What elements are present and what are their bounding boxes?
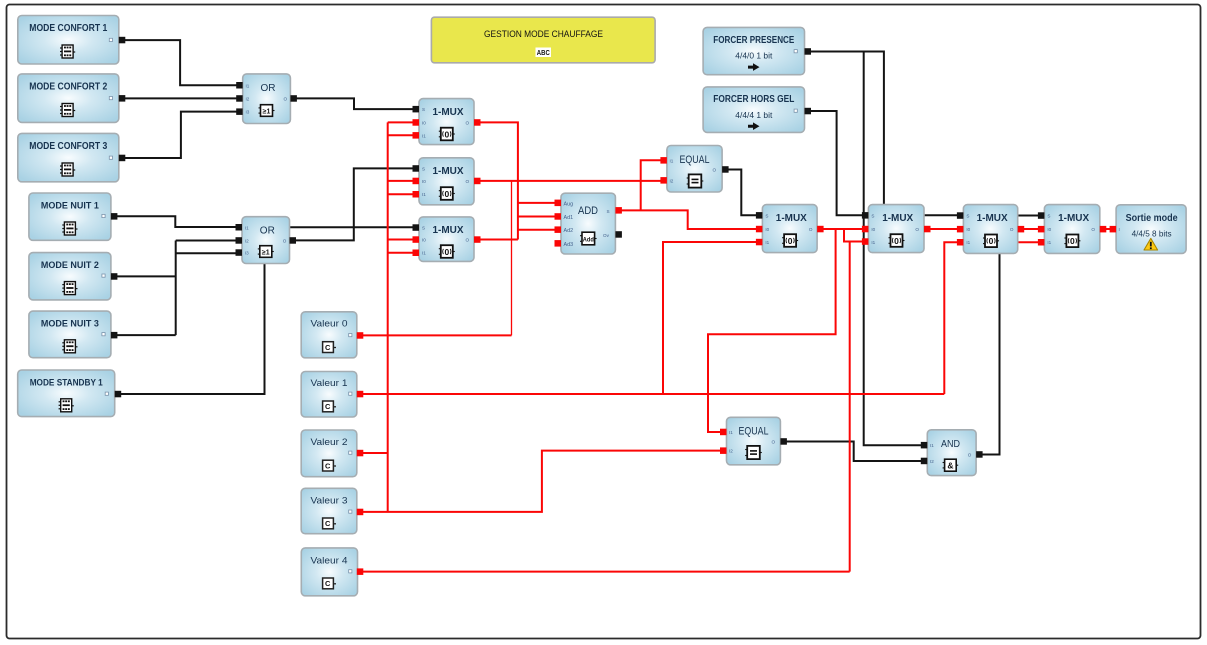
svg-text:1-MUX: 1-MUX	[433, 107, 464, 118]
wire Valeur 1 riser to MUX4.I1	[663, 242, 758, 394]
op 1-MUX 5	[862, 205, 931, 253]
svg-text:I1: I1	[422, 251, 426, 256]
svg-text:S: S	[966, 214, 969, 219]
wire stub to ADD.Ad2	[518, 229, 557, 231]
OR2 icon	[258, 246, 274, 258]
svg-text:O: O	[772, 440, 776, 445]
block Valeur 0	[301, 312, 363, 358]
MUX1 icon	[439, 128, 455, 141]
MUX7 icon	[1064, 235, 1080, 248]
wire stub to MUX3.I0	[388, 239, 414, 241]
op OR2	[236, 217, 297, 264]
svg-text:I0: I0	[765, 227, 769, 232]
svg-text:OR: OR	[260, 225, 275, 237]
OR1 icon	[259, 105, 275, 117]
svg-text:I0: I0	[422, 120, 426, 125]
svg-text:S: S	[422, 107, 425, 112]
MUX2 icon	[439, 187, 455, 200]
svg-text:EQUAL: EQUAL	[739, 426, 769, 438]
svg-text:Valeur 3: Valeur 3	[311, 495, 348, 505]
svg-text:≥1: ≥1	[262, 249, 270, 256]
svg-text:0: 0	[444, 129, 449, 139]
svg-text:S: S	[607, 209, 610, 214]
wire MUX4.O to MUX5.I0	[821, 228, 866, 230]
svg-text:0: 0	[1070, 236, 1075, 246]
svg-text:O: O	[466, 238, 470, 243]
block Valeur 1	[301, 372, 363, 418]
op ADD	[555, 193, 622, 254]
block Valeur 2	[301, 430, 363, 477]
wire Valeur 1 long line	[360, 393, 944, 395]
svg-text:O: O	[466, 179, 470, 184]
svg-text:I3: I3	[246, 110, 250, 115]
svg-text:Aug: Aug	[564, 201, 574, 207]
op OR1	[236, 74, 297, 124]
svg-text:≥1: ≥1	[263, 108, 271, 115]
wire stub to OR2.I3	[176, 252, 237, 254]
svg-text:O: O	[1010, 227, 1014, 232]
svg-text:I1: I1	[930, 443, 934, 448]
wire FORCER HORS GEL to MUX5.S	[808, 111, 863, 215]
wire MUX5.O to MUX6.I0	[927, 228, 959, 230]
wire MUX7.O to Sortie mode	[1103, 228, 1112, 230]
AND icon	[943, 459, 959, 471]
wire MODE NUIT 3 output	[116, 334, 176, 336]
svg-text:I0: I0	[966, 227, 970, 232]
svg-text:1-MUX: 1-MUX	[977, 213, 1008, 224]
svg-text:0: 0	[894, 236, 899, 246]
wire stub to MUX1.I1	[388, 134, 414, 136]
svg-text:1-MUX: 1-MUX	[1058, 213, 1089, 224]
wire ADD.S to MUX4.I0	[619, 210, 760, 229]
svg-text:Valeur 1: Valeur 1	[311, 378, 348, 388]
wire stub to OR2.I2	[176, 240, 237, 242]
svg-text:MODE NUIT 1: MODE NUIT 1	[41, 201, 99, 211]
svg-text:C: C	[325, 402, 331, 411]
block Valeur 3	[301, 488, 363, 533]
svg-text:Valeur 4: Valeur 4	[311, 556, 348, 566]
svg-text:C: C	[325, 519, 331, 528]
op AND	[921, 430, 983, 476]
wire MUX4.O branch to EQUAL2.I1	[708, 229, 836, 432]
svg-text:I1: I1	[246, 83, 250, 88]
wire stub to MUX2.I0	[388, 180, 414, 182]
Sortie warning icon	[1144, 238, 1158, 250]
wire stub to MUX1.I0	[388, 121, 414, 123]
svg-text:S: S	[422, 226, 425, 231]
block MODE NUIT 2	[29, 253, 118, 300]
wire OR1.O to MUX1.S	[293, 98, 414, 109]
wire OR2 edge to MUX3.S	[290, 226, 414, 228]
wire Valeur 3 to EQUAL2.I2	[360, 451, 722, 512]
svg-text:OR: OR	[261, 82, 276, 94]
wire Valeur 1 riser to MUX6.I1	[944, 242, 959, 394]
block MODE NUIT 3	[29, 311, 118, 358]
block FORCER HORS GEL	[703, 87, 811, 132]
wire FORCER PRESENCE branch to AND.I1	[864, 52, 922, 446]
wire stub to MUX3.I1	[388, 252, 414, 254]
svg-text:I1: I1	[245, 225, 249, 230]
svg-text:I1: I1	[966, 240, 970, 245]
FORCER HORS GEL arrow icon	[748, 122, 760, 130]
svg-text:I1: I1	[670, 158, 674, 163]
wire stub to ADD.Aug	[518, 202, 557, 204]
svg-text:C: C	[325, 461, 331, 470]
svg-text:1-MUX: 1-MUX	[433, 225, 464, 236]
svg-text:S: S	[1047, 214, 1050, 219]
svg-text:MODE CONFORT 3: MODE CONFORT 3	[29, 141, 108, 152]
wire MUX6 edge to MUX7.S	[1018, 215, 1040, 217]
svg-text:I0: I0	[871, 227, 875, 232]
block FORCER PRESENCE	[703, 27, 811, 74]
svg-text:AND: AND	[941, 439, 960, 450]
wire MODE NUIT 2 output	[116, 275, 176, 277]
wire MUX1.O down to ADD inputs	[477, 122, 518, 239]
svg-text:0: 0	[444, 247, 449, 257]
wire MODE NUIT 1 to OR2.I1	[116, 216, 237, 227]
block MODE STANDBY 1	[18, 370, 122, 417]
wire MUX3.O to riser	[477, 239, 518, 241]
svg-text:S: S	[871, 213, 874, 218]
svg-text:ABC: ABC	[537, 48, 550, 57]
MUX6 icon	[983, 235, 999, 248]
svg-text:I1: I1	[871, 240, 875, 245]
svg-text:ADD: ADD	[578, 205, 598, 217]
svg-text:MODE NUIT 2: MODE NUIT 2	[41, 260, 99, 270]
svg-text:I0: I0	[1047, 227, 1051, 232]
svg-text:1-MUX: 1-MUX	[882, 213, 913, 224]
svg-text:MODE CONFORT 1: MODE CONFORT 1	[29, 23, 108, 34]
op 1-MUX 4	[756, 205, 824, 253]
block MODE NUIT 1	[29, 193, 118, 240]
wire Valeur 0 output	[360, 334, 512, 336]
svg-text:MODE STANDBY 1: MODE STANDBY 1	[30, 378, 103, 388]
wire AND.O to MUX6 bottom	[979, 253, 1000, 454]
svg-text:&: &	[947, 460, 953, 470]
FORCER PRESENCE arrow icon	[748, 63, 760, 71]
block Sortie mode	[1110, 205, 1187, 254]
svg-text:I1: I1	[729, 430, 733, 435]
svg-text:4/4/0 1 bit: 4/4/0 1 bit	[735, 52, 773, 61]
wire MUX6.O to MUX7.I0	[1021, 228, 1040, 230]
svg-text:I2: I2	[246, 97, 250, 102]
svg-text:Ad2: Ad2	[564, 228, 574, 234]
wire MUX5 edge to MUX6.S	[924, 214, 959, 216]
op 1-MUX 3	[413, 217, 481, 262]
svg-text:4/4/5 8 bits: 4/4/5 8 bits	[1132, 229, 1172, 238]
wire stub to ADD.Ad1	[518, 216, 557, 218]
op 1-MUX 7	[1038, 205, 1106, 254]
svg-text:I: I	[1119, 227, 1120, 232]
svg-text:4/4/4 1 bit: 4/4/4 1 bit	[735, 111, 773, 120]
wire MODE CONFORT 1 to OR1.I1	[124, 40, 238, 85]
MUX4 icon	[782, 234, 798, 247]
svg-text:Ov: Ov	[603, 233, 610, 238]
svg-text:S: S	[422, 166, 425, 171]
svg-text:0: 0	[444, 189, 449, 199]
wire FORCER PRESENCE to MUX5 top	[808, 52, 884, 205]
svg-text:MODE NUIT 3: MODE NUIT 3	[41, 319, 99, 329]
svg-text:O: O	[283, 239, 287, 244]
svg-text:MODE CONFORT 2: MODE CONFORT 2	[29, 82, 107, 93]
svg-text:I2: I2	[670, 178, 674, 183]
wire Valeur 0 riser to MUX2.O line	[511, 181, 513, 336]
wire stub to MUX2.I1	[388, 193, 414, 195]
svg-text:Add: Add	[583, 236, 594, 243]
op EQUAL2	[720, 417, 787, 465]
wire MUX6 edge to MUX7.I1	[1018, 241, 1040, 243]
wire MODE STANDBY 1 to OR2 bottom	[120, 264, 265, 395]
wire riser for MODE NUIT 2/3	[175, 241, 177, 336]
svg-text:I3: I3	[245, 251, 249, 256]
MUX3 icon	[439, 245, 455, 258]
ADD icon	[580, 232, 597, 245]
wire jog to MUX5.I1	[844, 229, 865, 242]
svg-text:FORCER PRESENCE: FORCER PRESENCE	[713, 35, 794, 46]
svg-text:C: C	[325, 343, 331, 352]
svg-text:O: O	[466, 120, 470, 125]
svg-text:I0: I0	[422, 179, 426, 184]
block MODE CONFORT 1	[18, 16, 126, 65]
svg-text:C: C	[325, 579, 331, 588]
svg-text:O: O	[968, 453, 972, 458]
svg-text:Valeur 0: Valeur 0	[311, 318, 348, 328]
svg-text:Sortie mode: Sortie mode	[1126, 213, 1178, 224]
svg-text:I0: I0	[422, 238, 426, 243]
svg-text:I2: I2	[930, 459, 934, 464]
svg-text:O: O	[809, 227, 813, 232]
svg-text:Valeur 2: Valeur 2	[311, 437, 348, 447]
svg-text:FORCER HORS GEL: FORCER HORS GEL	[713, 94, 794, 105]
svg-text:S: S	[765, 213, 768, 218]
svg-text:O: O	[713, 168, 717, 173]
EQUAL1 icon	[687, 174, 704, 187]
svg-text:0: 0	[788, 236, 793, 246]
svg-text:O: O	[284, 97, 288, 102]
wire Valeur 2 output	[360, 452, 388, 454]
svg-text:Ad1: Ad1	[564, 215, 574, 221]
title box GESTION MODE CHAUFFAGE	[431, 17, 655, 63]
svg-text:GESTION MODE CHAUFFAGE: GESTION MODE CHAUFFAGE	[484, 29, 603, 40]
block MODE CONFORT 3	[18, 133, 126, 181]
svg-text:O: O	[1091, 227, 1095, 232]
op 1-MUX 2	[413, 158, 481, 205]
wire MODE CONFORT 3 to OR1.I3	[124, 112, 238, 158]
op 1-MUX 6	[957, 205, 1024, 254]
wire EQUAL2.O to AND.I2	[784, 442, 922, 462]
svg-text:I1: I1	[765, 240, 769, 245]
svg-text:I1: I1	[1047, 240, 1051, 245]
svg-text:I2: I2	[729, 449, 733, 454]
wire Valeur 4 output	[360, 571, 850, 573]
svg-text:I1: I1	[422, 192, 426, 197]
wire ADD.S branch to EQUAL1.I1	[641, 160, 664, 210]
EQUAL2 icon	[745, 446, 762, 459]
wire OR2.O to MUX2.S	[293, 168, 415, 240]
op EQUAL1	[660, 146, 728, 193]
wire EQUAL1.O to MUX4.S	[725, 170, 758, 216]
wire MODE CONFORT 2 to OR1.I2	[124, 97, 238, 99]
svg-text:1-MUX: 1-MUX	[433, 166, 464, 177]
svg-text:EQUAL: EQUAL	[680, 154, 710, 166]
wire MUX2.O to EQUAL1.I2	[477, 180, 664, 182]
op 1-MUX 1	[413, 99, 481, 145]
wire red bus vertical feeding MUX1-3 inputs	[387, 122, 389, 512]
svg-text:1-MUX: 1-MUX	[776, 213, 807, 224]
svg-text:O: O	[915, 227, 919, 232]
svg-text:0: 0	[989, 236, 994, 246]
svg-text:I1: I1	[422, 133, 426, 138]
wire Valeur 4 riser to MUX5.I1 line	[849, 242, 851, 572]
svg-text:Ad3: Ad3	[564, 242, 574, 248]
block Valeur 4	[301, 548, 363, 596]
block MODE CONFORT 2	[18, 74, 126, 123]
ABC icon	[536, 48, 552, 58]
svg-text:I2: I2	[245, 239, 249, 244]
MUX5 icon	[889, 234, 905, 247]
